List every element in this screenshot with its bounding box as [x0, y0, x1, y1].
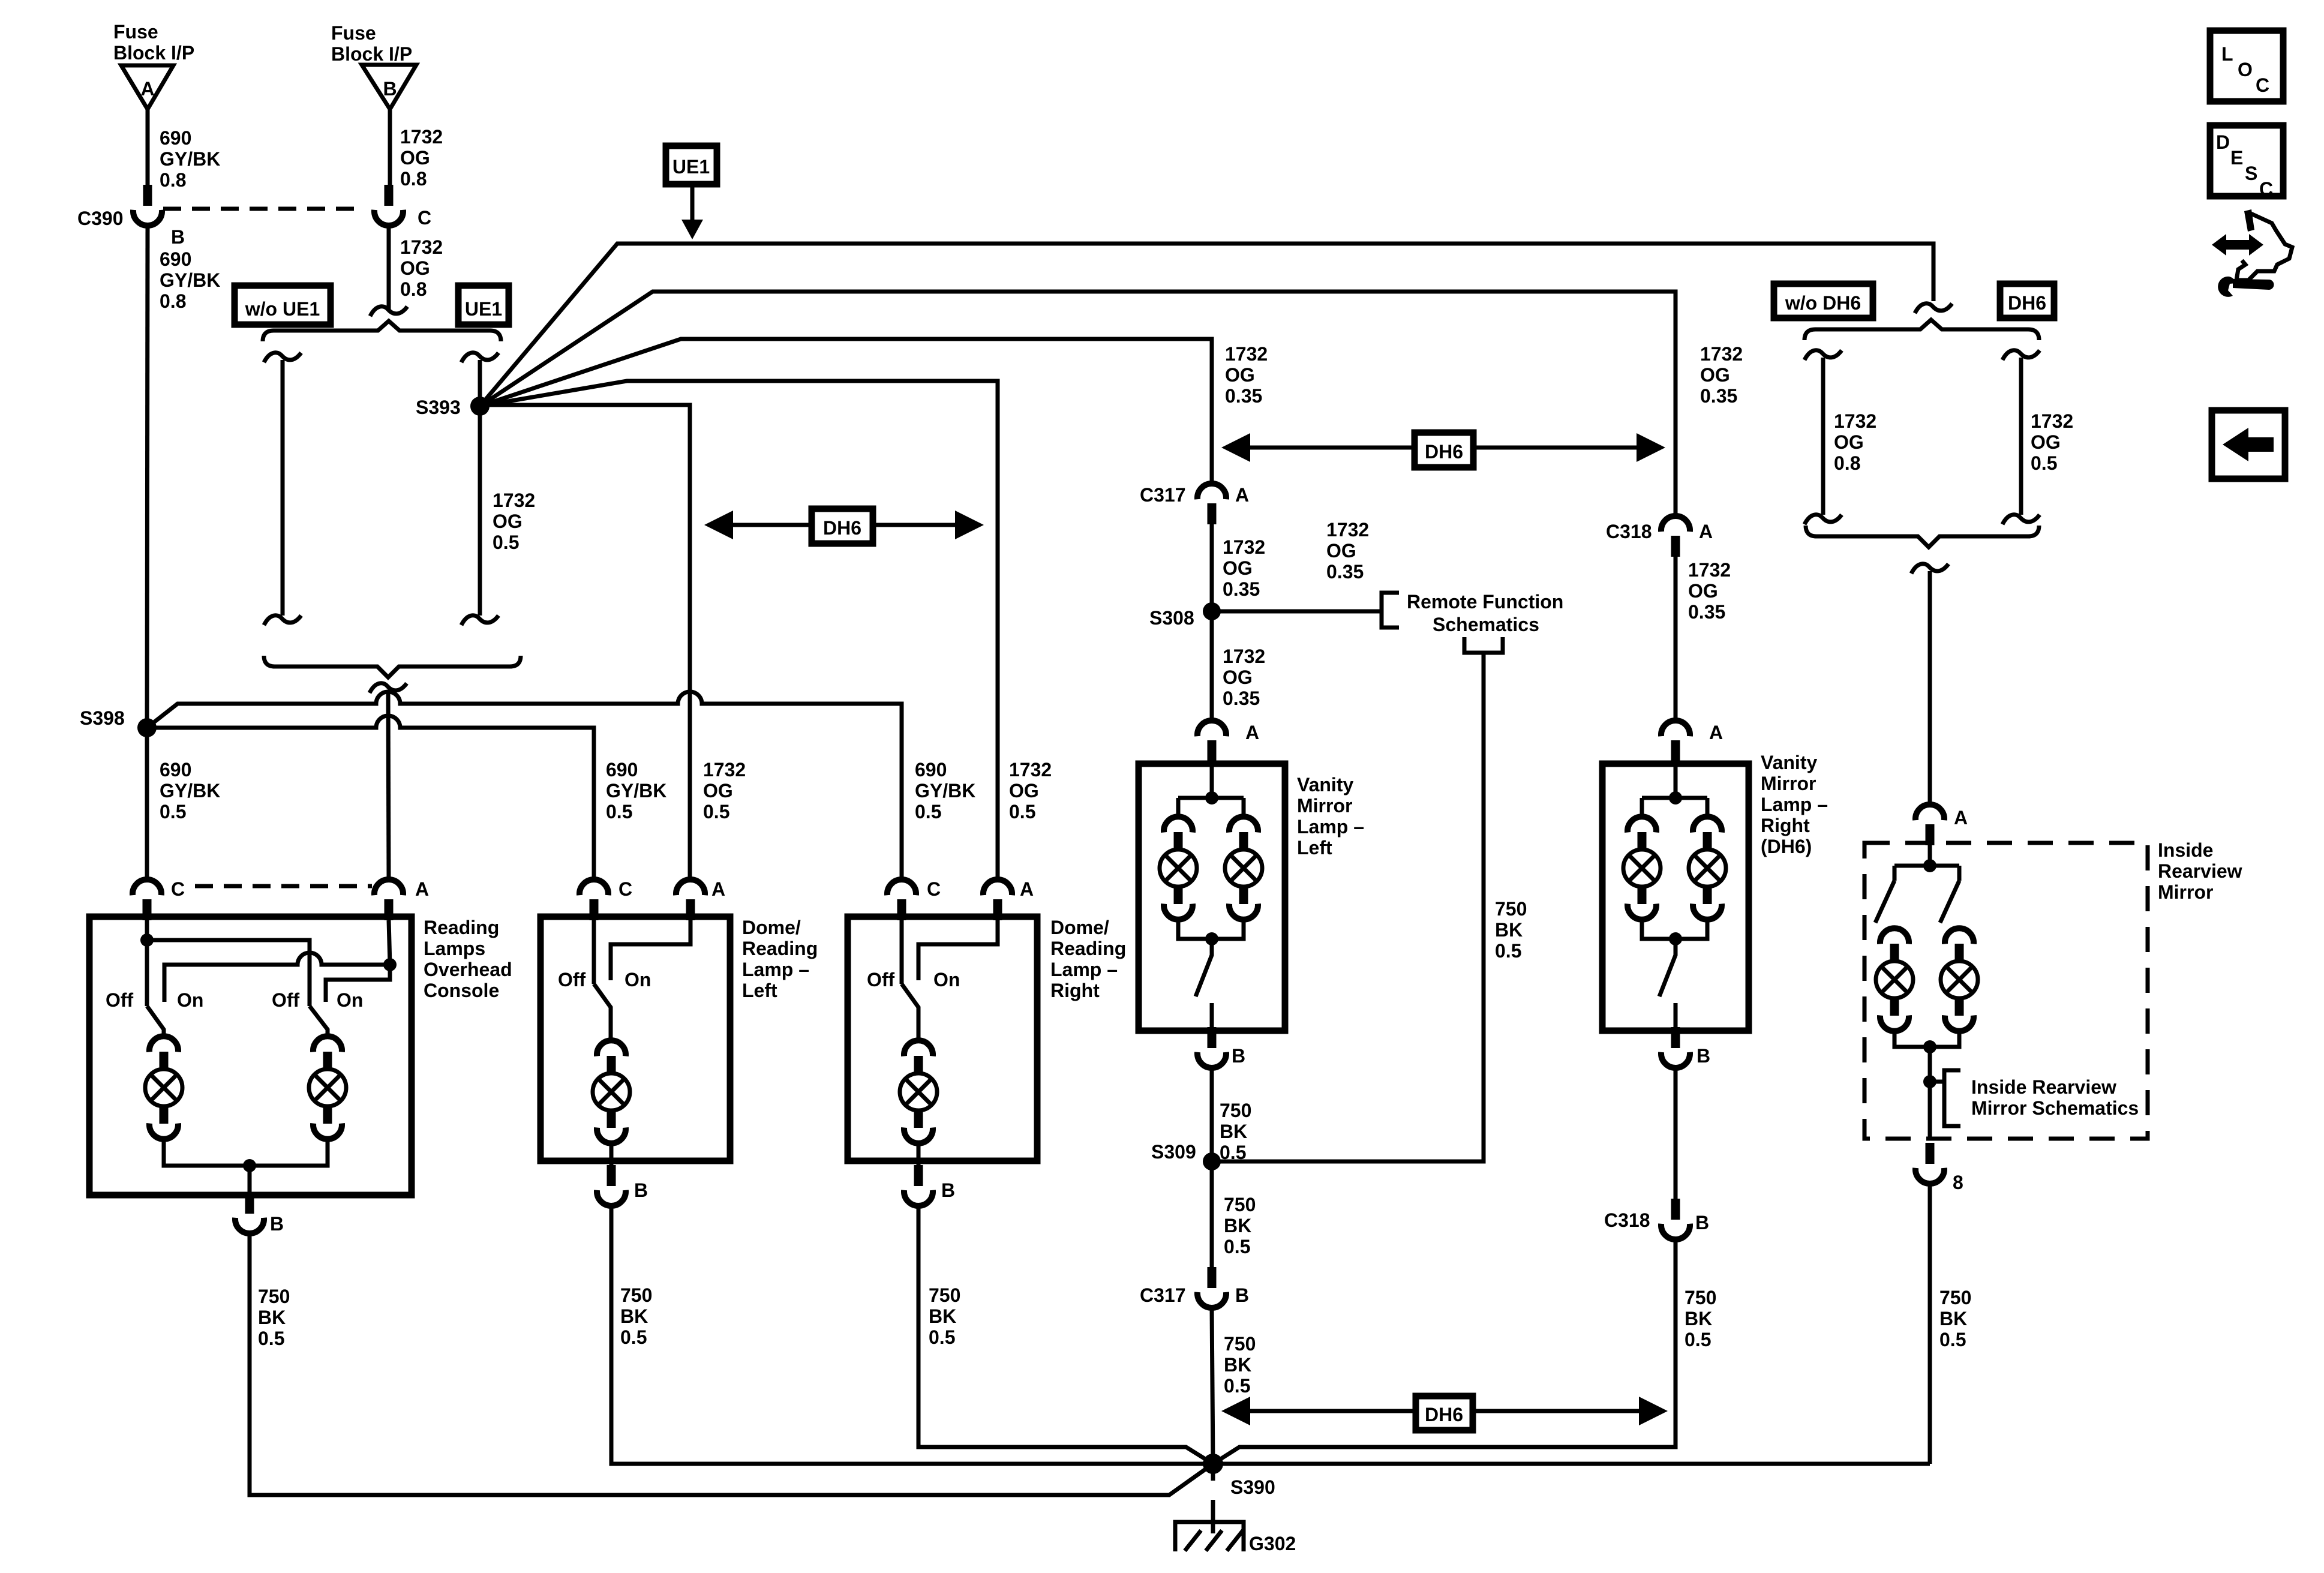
svg-text:Left: Left [742, 980, 777, 1001]
wire down through schematics tap [1928, 1047, 1932, 1139]
off-page bracket remote function [1382, 593, 1399, 628]
wire lamp to B [609, 1143, 614, 1166]
wire bus to right switch common [147, 940, 310, 1006]
wire A into box [1674, 761, 1678, 798]
svg-text:BK: BK [1939, 1308, 1967, 1329]
wire common down to B [248, 1166, 252, 1193]
svg-text:OG: OG [703, 780, 733, 801]
svg-text:BK: BK [1495, 919, 1523, 941]
wire S308 to remote function bracket [1212, 610, 1382, 614]
svg-text:Remote Function: Remote Function [1407, 591, 1563, 613]
svg-text:Block I/P: Block I/P [113, 42, 194, 64]
svg-text:Reading: Reading [1050, 938, 1126, 959]
svg-text:C: C [927, 878, 941, 900]
split brace [263, 321, 501, 341]
dashed mate line C390 [163, 207, 359, 211]
wire down to UE1 split [387, 226, 391, 310]
svg-text:C317: C317 [1140, 1284, 1186, 1306]
svg-text:OG: OG [1223, 557, 1253, 579]
svg-text:0.5: 0.5 [2031, 452, 2057, 474]
option box w/o UE1 [235, 286, 331, 325]
wire A into box to dot [389, 920, 390, 965]
DH6 arrow middle [704, 509, 984, 544]
wire lamp bus top (vanity left) [1178, 798, 1244, 818]
svg-text:Left: Left [1297, 837, 1332, 858]
wire B down, through S390 to inside rearview mirror drop [611, 1206, 1930, 1464]
wire fan line 4 to dome right A [480, 381, 998, 879]
svg-text:GY/BK: GY/BK [160, 148, 220, 170]
wire fuse A to C390 [146, 109, 150, 185]
svg-text:Lamp –: Lamp – [1297, 816, 1364, 837]
wire break below right merge [1911, 564, 1948, 574]
svg-text:OG: OG [1700, 364, 1730, 386]
wire B down to C318 B [1674, 1068, 1678, 1199]
merge brace [264, 656, 521, 677]
wire On feed left (hops over 516) [164, 953, 390, 1002]
lamp console right [309, 1036, 346, 1139]
lamp vanity left 2 [1225, 816, 1262, 919]
connector C (console) [133, 879, 161, 920]
lamp console left [145, 1036, 182, 1139]
svg-text:8: 8 [1953, 1172, 1963, 1193]
svg-text:Right: Right [1050, 980, 1100, 1001]
connector B (vanity right) [1661, 1027, 1690, 1068]
wire B down to S390 [250, 1233, 1213, 1495]
svg-text:Block I/P: Block I/P [331, 43, 412, 65]
svg-text:C318: C318 [1604, 1209, 1650, 1231]
svg-text:DH6: DH6 [1425, 441, 1463, 463]
splice S398 [137, 718, 157, 737]
vanity left box [1139, 764, 1285, 1031]
connector B (dome left) [597, 1165, 626, 1206]
svg-text:A: A [1235, 484, 1249, 506]
svg-text:OG: OG [1688, 580, 1718, 602]
wire S398 down to console C [145, 728, 149, 879]
wire w/o UE1 branch [281, 360, 285, 616]
wire UE1 branch to S393 [478, 360, 482, 401]
svg-text:w/o DH6: w/o DH6 [1785, 292, 1861, 314]
svg-text:C: C [2259, 178, 2273, 200]
connector B (console) [235, 1193, 264, 1233]
svg-text:B: B [634, 1179, 648, 1201]
svg-text:A: A [1709, 722, 1723, 743]
lamp vanity right 1 [1623, 816, 1661, 919]
switch blade (dome right) [902, 984, 918, 1041]
connector C390 pin C [374, 185, 403, 226]
svg-text:GY/BK: GY/BK [915, 780, 975, 801]
splice S393 [470, 397, 490, 416]
svg-text:w/o UE1: w/o UE1 [245, 298, 320, 320]
svg-text:0.35: 0.35 [1223, 578, 1260, 600]
svg-text:B: B [941, 1179, 955, 1201]
wire w/o DH6 branch [1821, 358, 1825, 515]
wire B down to S390 [918, 1206, 1213, 1464]
wire On feed right [326, 965, 390, 1002]
switch blade right (IRM) [1940, 881, 1959, 923]
svg-text:A: A [711, 878, 725, 900]
svg-text:750: 750 [1220, 1100, 1251, 1121]
DESC legend box [2210, 125, 2283, 200]
svg-text:Mirror: Mirror [1761, 773, 1816, 794]
wire lamps to common [164, 1139, 328, 1166]
connector 8 (IRM) [1915, 1143, 1944, 1184]
svg-text:UE1: UE1 [672, 156, 710, 178]
svg-text:D: D [2216, 131, 2230, 153]
svg-text:Lamp –: Lamp – [1050, 959, 1118, 980]
svg-text:0.5: 0.5 [1224, 1375, 1250, 1397]
svg-text:0.35: 0.35 [1700, 385, 1737, 407]
wire 8 down to S390 bus [1928, 1184, 1932, 1464]
lamp vanity right 2 [1689, 816, 1726, 919]
svg-text:A: A [1020, 878, 1034, 900]
wire S308 down to vanity left A [1210, 611, 1214, 721]
svg-text:OG: OG [1225, 364, 1255, 386]
svg-text:Off: Off [106, 989, 134, 1011]
off-page stub under remote function [1464, 637, 1503, 653]
connector C318 pin A [1661, 516, 1690, 557]
wire lamp to B [917, 1143, 921, 1166]
svg-text:B: B [1232, 1045, 1245, 1067]
wire lamp bus bottom (vanity right) [1642, 919, 1707, 939]
svg-text:BK: BK [1224, 1354, 1251, 1376]
wire lamp bus top (IRM) [1894, 866, 1959, 881]
dashed mate line C-A [195, 884, 372, 888]
option box UE1 [458, 286, 509, 325]
svg-text:B: B [1695, 1212, 1709, 1233]
connector C390 pin B [133, 185, 162, 226]
svg-text:1732: 1732 [1700, 343, 1743, 365]
svg-text:On: On [337, 989, 363, 1011]
node lamp common [243, 1159, 256, 1172]
dome right box [848, 917, 1037, 1161]
svg-text:A: A [1954, 807, 1968, 828]
wire C into box [900, 920, 904, 984]
wire S393 down branch [478, 406, 482, 616]
svg-text:1732: 1732 [703, 759, 746, 781]
svg-text:1732: 1732 [400, 236, 443, 258]
svg-text:690: 690 [606, 759, 638, 781]
connector A (vanity left) [1197, 721, 1226, 761]
wire C317 to S308 [1210, 524, 1214, 606]
svg-text:0.5: 0.5 [493, 532, 519, 553]
wire merged down to inside rearview mirror [1928, 571, 1932, 804]
svg-text:S393: S393 [416, 397, 461, 418]
svg-text:750: 750 [1939, 1287, 1971, 1308]
service icon: double arrow, housing, wrench [2212, 209, 2292, 297]
svg-text:C: C [418, 207, 431, 229]
svg-text:1732: 1732 [1834, 410, 1876, 432]
svg-text:Right: Right [1761, 815, 1810, 836]
svg-text:0.5: 0.5 [258, 1328, 284, 1349]
connector A (inside rearview mirror) [1915, 804, 1944, 845]
svg-text:S390: S390 [1230, 1476, 1275, 1498]
svg-text:On: On [933, 969, 960, 990]
svg-text:Rearview: Rearview [2158, 860, 2242, 882]
svg-text:GY/BK: GY/BK [160, 269, 220, 291]
svg-text:0.5: 0.5 [1495, 940, 1521, 962]
svg-text:S398: S398 [80, 707, 125, 729]
svg-text:BK: BK [258, 1307, 286, 1328]
wire C into box [592, 920, 596, 984]
wire A to On stub [611, 920, 690, 980]
svg-text:0.5: 0.5 [620, 1326, 647, 1348]
svg-text:Reading: Reading [742, 938, 818, 959]
switch blade (dome left) [594, 984, 611, 1041]
wire lamp bus bottom (IRM) [1894, 1031, 1959, 1047]
wire fan line 2 to C318 [480, 292, 1676, 516]
wire break UE1 branch [461, 353, 499, 362]
svg-text:G302: G302 [1249, 1533, 1296, 1554]
svg-text:A: A [140, 78, 154, 100]
svg-text:0.5: 0.5 [703, 801, 729, 822]
svg-text:OG: OG [400, 257, 430, 279]
svg-text:BK: BK [1224, 1215, 1251, 1236]
svg-text:OG: OG [493, 511, 523, 532]
wire break right merge [461, 616, 499, 625]
svg-text:GY/BK: GY/BK [160, 780, 220, 801]
switch (vanity right) [1659, 939, 1676, 996]
wire S390 to ground [1211, 1473, 1215, 1533]
svg-text:C317: C317 [1140, 484, 1186, 506]
connector C317 pin A [1197, 484, 1226, 524]
svg-text:S308: S308 [1149, 607, 1194, 629]
svg-text:1732: 1732 [1688, 559, 1731, 581]
svg-text:Reading: Reading [424, 917, 499, 938]
off-page bracket inside rearview mirror schematics [1930, 1080, 1944, 1084]
switch (vanity left) [1196, 939, 1212, 996]
svg-text:S309: S309 [1151, 1141, 1196, 1163]
connector C318 pin B [1661, 1199, 1690, 1239]
wire fan line 5 to dome left A [480, 405, 690, 879]
connector A (vanity right) [1661, 721, 1690, 761]
splice S390 [1203, 1454, 1223, 1474]
svg-text:A: A [1245, 722, 1259, 743]
connector B (dome right) [904, 1165, 933, 1206]
svg-text:750: 750 [1224, 1333, 1256, 1355]
svg-text:On: On [177, 989, 203, 1011]
connector A (dome left) [676, 879, 705, 920]
svg-text:A: A [1699, 521, 1713, 542]
wire merged down to overhead console A [388, 691, 389, 879]
svg-text:C318: C318 [1606, 521, 1652, 542]
svg-text:1732: 1732 [400, 126, 443, 148]
switch blade left (IRM) [1875, 881, 1894, 923]
svg-text:BK: BK [620, 1305, 648, 1327]
svg-text:1732: 1732 [1326, 519, 1369, 541]
back arrow legend box [2212, 410, 2285, 479]
wire fan line 1 to right DH6 split [480, 244, 1933, 406]
svg-text:C390: C390 [77, 208, 124, 229]
svg-text:L: L [2221, 43, 2233, 65]
svg-text:1732: 1732 [1009, 759, 1052, 781]
ground symbol G302 [1175, 1522, 1244, 1551]
svg-text:BK: BK [929, 1305, 956, 1327]
connector A (console) [374, 879, 403, 920]
svg-text:C: C [2256, 74, 2269, 96]
wire C318 down to vanity right A [1674, 557, 1678, 721]
connector C (dome left) [580, 879, 608, 920]
LOC legend box [2210, 31, 2283, 101]
UE1 pointer arrow [690, 184, 695, 220]
lamp dome right [900, 1040, 937, 1143]
svg-text:0.35: 0.35 [1326, 561, 1364, 583]
svg-text:0.8: 0.8 [400, 168, 427, 190]
svg-text:0.5: 0.5 [929, 1326, 955, 1348]
wire break right end merge [2002, 515, 2040, 524]
connector B (vanity left) [1197, 1027, 1226, 1068]
fuse block triangle A [121, 65, 173, 109]
svg-text:750: 750 [1495, 898, 1527, 920]
svg-text:1732: 1732 [493, 490, 535, 511]
svg-text:Lamp –: Lamp – [1761, 794, 1828, 815]
svg-text:UE1: UE1 [465, 298, 502, 320]
vanity right box [1602, 764, 1749, 1031]
svg-text:Mirror: Mirror [1297, 795, 1352, 816]
svg-text:750: 750 [929, 1284, 960, 1306]
svg-text:0.5: 0.5 [160, 801, 186, 822]
svg-text:690: 690 [160, 759, 191, 781]
svg-text:DH6: DH6 [823, 517, 861, 539]
wire S398 upper run to dome right C (hops at 647 and 1150) [147, 692, 902, 879]
svg-text:E: E [2230, 147, 2243, 169]
UE1 pointer box [666, 146, 717, 184]
wire C into box [145, 920, 149, 1006]
wire break at split top [370, 307, 407, 316]
svg-text:BK: BK [1220, 1121, 1247, 1142]
svg-text:0.5: 0.5 [1220, 1142, 1246, 1163]
wire fan line 3 to C317 [480, 339, 1212, 484]
svg-text:0.8: 0.8 [400, 278, 427, 300]
svg-text:750: 750 [1685, 1287, 1716, 1308]
svg-text:0.8: 0.8 [160, 290, 186, 312]
dome left box [541, 917, 730, 1161]
svg-text:OG: OG [1223, 667, 1253, 688]
wire break top of right split [1915, 304, 1952, 313]
connector A (dome right) [983, 879, 1012, 920]
option box DH6 [2000, 284, 2054, 318]
wire break left end merge [1804, 515, 1842, 524]
svg-text:A: A [415, 878, 429, 900]
split brace right [1804, 320, 2039, 340]
wire from remote function down to S309 [1212, 653, 1484, 1161]
console box [89, 917, 412, 1195]
svg-text:GY/BK: GY/BK [606, 780, 666, 801]
wire break DH6 branch [2002, 350, 2040, 360]
svg-text:Inside: Inside [2158, 839, 2213, 861]
svg-text:B: B [171, 226, 185, 248]
lamp dome left [593, 1040, 630, 1143]
svg-text:C: C [171, 878, 185, 900]
svg-text:BK: BK [1685, 1308, 1712, 1329]
svg-text:Fuse: Fuse [331, 22, 376, 44]
svg-text:Schematics: Schematics [1433, 614, 1539, 635]
svg-text:0.5: 0.5 [1224, 1236, 1250, 1257]
svg-text:0.5: 0.5 [1685, 1329, 1711, 1350]
wire fuse B down [388, 109, 392, 185]
svg-text:0.5: 0.5 [915, 801, 941, 822]
DH6 arrow upper [1221, 433, 1665, 467]
svg-text:Lamp –: Lamp – [742, 959, 809, 980]
svg-text:0.35: 0.35 [1223, 688, 1260, 709]
svg-text:OG: OG [1326, 540, 1356, 562]
svg-text:DH6: DH6 [1425, 1404, 1463, 1425]
wire break w/o UE1 branch [264, 353, 301, 362]
svg-text:S: S [2245, 163, 2257, 184]
wire C317 B down to S390 [1212, 1308, 1213, 1464]
svg-text:B: B [270, 1213, 284, 1235]
svg-text:690: 690 [160, 248, 191, 270]
svg-text:(DH6): (DH6) [1761, 836, 1812, 857]
wire break w/o DH6 branch [1804, 350, 1842, 360]
svg-text:Off: Off [867, 969, 895, 990]
svg-text:Lamps: Lamps [424, 938, 485, 959]
svg-text:690: 690 [915, 759, 947, 781]
svg-text:0.5: 0.5 [1939, 1329, 1966, 1350]
svg-text:750: 750 [620, 1284, 652, 1306]
svg-text:1732: 1732 [2031, 410, 2073, 432]
switch blade right (console) [310, 1006, 328, 1038]
wire A into box [1210, 761, 1214, 798]
lamp IRM right [1941, 928, 1978, 1031]
wire C390 down to S398 [147, 226, 148, 728]
svg-text:On: On [624, 969, 651, 990]
connector C (dome right) [887, 879, 916, 920]
svg-text:690: 690 [160, 127, 191, 149]
wire A to On stub [918, 920, 998, 980]
splice S309 [1203, 1152, 1221, 1170]
wire lamp bus bottom (vanity left) [1178, 919, 1244, 939]
svg-text:OG: OG [1834, 431, 1864, 453]
node switch bus junction [140, 933, 154, 947]
merge brace right [1806, 526, 2039, 547]
svg-text:Vanity: Vanity [1297, 774, 1353, 795]
wire C318 B down to S390 [1213, 1239, 1676, 1464]
svg-text:Dome/: Dome/ [1050, 917, 1109, 938]
svg-text:750: 750 [1224, 1194, 1256, 1215]
svg-text:Fuse: Fuse [113, 21, 158, 43]
lamp IRM left [1876, 928, 1913, 1031]
svg-text:Off: Off [558, 969, 586, 990]
wire break left merge [264, 616, 301, 625]
svg-text:Console: Console [424, 980, 499, 1001]
svg-text:0.8: 0.8 [1834, 452, 1860, 474]
svg-text:1732: 1732 [1223, 646, 1265, 667]
svg-text:Dome/: Dome/ [742, 917, 801, 938]
svg-text:Off: Off [272, 989, 300, 1011]
svg-text:B: B [1697, 1045, 1710, 1067]
connector C317 pin B [1197, 1267, 1226, 1308]
svg-text:0.35: 0.35 [1688, 601, 1725, 623]
wire A into box [1928, 845, 1932, 866]
svg-text:Mirror Schematics: Mirror Schematics [1971, 1097, 2139, 1119]
wire S398 lower run to dome left C (hop at 647) [147, 716, 594, 879]
svg-text:1732: 1732 [1225, 343, 1268, 365]
lamp vanity left 1 [1160, 816, 1197, 919]
svg-text:Mirror: Mirror [2158, 881, 2213, 903]
DH6 arrow lower [1221, 1396, 1668, 1430]
svg-text:0.8: 0.8 [160, 169, 186, 191]
svg-text:C: C [618, 878, 632, 900]
wire break below merge [370, 683, 407, 693]
svg-text:OG: OG [2031, 431, 2061, 453]
svg-text:OG: OG [400, 147, 430, 169]
svg-text:Overhead: Overhead [424, 959, 512, 980]
svg-text:OG: OG [1009, 780, 1039, 801]
wire lamp bus top (vanity right) [1642, 798, 1707, 818]
svg-text:Inside Rearview: Inside Rearview [1971, 1076, 2116, 1098]
wire DH6 branch [2019, 358, 2023, 515]
svg-text:O: O [2238, 59, 2253, 80]
